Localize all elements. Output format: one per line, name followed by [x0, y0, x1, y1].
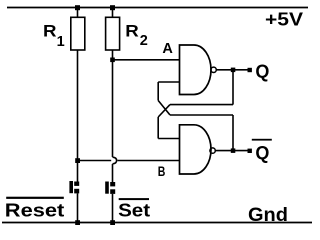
NAND gate U1 body: [180, 45, 211, 95]
Q wire end dot: [248, 68, 252, 72]
switch S1 actuator bar: [69, 181, 73, 193]
switch S2 actuator bar: [105, 182, 109, 194]
wire Qbar feedback: horizontal to Qbar vertical: [170, 114, 233, 116]
junction node Qbar: [231, 148, 236, 153]
wire Q feedback: down to U2 input level: [157, 117, 159, 139]
wire Q feedback diagonal through crossover: [158, 105, 170, 117]
svg-text:+5V: +5V: [265, 9, 304, 30]
junction on ground rail at Reset wire: [75, 220, 80, 225]
svg-text:2: 2: [140, 33, 148, 49]
wire switch S2 to ground rail: [112, 194, 114, 223]
wire U2 output to Qbar: [215, 150, 250, 152]
svg-text:Q: Q: [255, 143, 269, 163]
switch S1 (Reset pushbutton) contacts: [74, 182, 79, 186]
svg-text:1: 1: [57, 34, 65, 50]
resistor R2: [106, 17, 120, 50]
svg-text:R: R: [125, 22, 139, 41]
svg-text:Reset: Reset: [5, 201, 65, 221]
junction on ground rail at Set wire: [110, 220, 115, 225]
Set label overline: [119, 198, 149, 200]
wire Q feedback: into gate U2 upper input: [158, 138, 179, 140]
junction on +5V rail at R1: [75, 5, 80, 10]
Reset label overline: [6, 197, 64, 199]
ground rail Gnd: [2, 222, 312, 224]
svg-text:B: B: [158, 163, 166, 179]
svg-text:Q: Q: [255, 62, 269, 82]
wire R2 top lead: [112, 8, 114, 18]
wire B line right segment (hop to gate U2 input B): [118, 160, 180, 162]
junction on Reset wire for B line: [75, 158, 80, 163]
wire R2 lead below hop to switch S2: [112, 164, 114, 183]
junction on +5V rail at R2: [110, 5, 115, 10]
wire Q feedback: Q node down: [232, 70, 234, 105]
Qbar wire end dot: [248, 149, 252, 153]
wire hop: R2 wire jumps over Reset-B wire: [113, 157, 117, 164]
junction node Q: [231, 68, 236, 73]
NAND gate U2 body: [180, 125, 212, 174]
resistor R1: [71, 17, 85, 50]
svg-text:R: R: [43, 22, 57, 41]
wire R1 bottom lead down to switch S1: [77, 50, 79, 182]
svg-text:Gnd: Gnd: [248, 205, 288, 226]
wire R1 top lead: [77, 8, 79, 18]
wire Q feedback: horizontal to crossover: [170, 104, 233, 106]
wire Qbar feedback: into gate U1 lower input: [158, 81, 179, 83]
+5V power rail: [7, 7, 308, 9]
wire Qbar feedback: vertical down to Qbar node: [232, 115, 234, 151]
wire U1 output to Q: [216, 69, 250, 71]
svg-text:Set: Set: [118, 201, 150, 221]
Qbar label overline: [252, 139, 272, 141]
NAND gate U1 output bubble: [211, 67, 216, 72]
wire Qbar feedback: down from U1 input level: [157, 82, 159, 101]
junction node A on R2 wire: [110, 58, 115, 63]
wire R2 bottom lead down to hop: [112, 50, 114, 157]
NAND gate U2 output bubble: [210, 148, 215, 153]
svg-text:A: A: [162, 41, 173, 57]
wire B line left segment (junction to hop): [78, 160, 112, 162]
wire node A to gate U1 input: [113, 59, 180, 61]
wire switch S1 to ground rail: [77, 193, 79, 222]
switch S2 (Set pushbutton) contacts: [110, 182, 115, 186]
wire Qbar feedback diagonal through crossover: [158, 101, 170, 116]
